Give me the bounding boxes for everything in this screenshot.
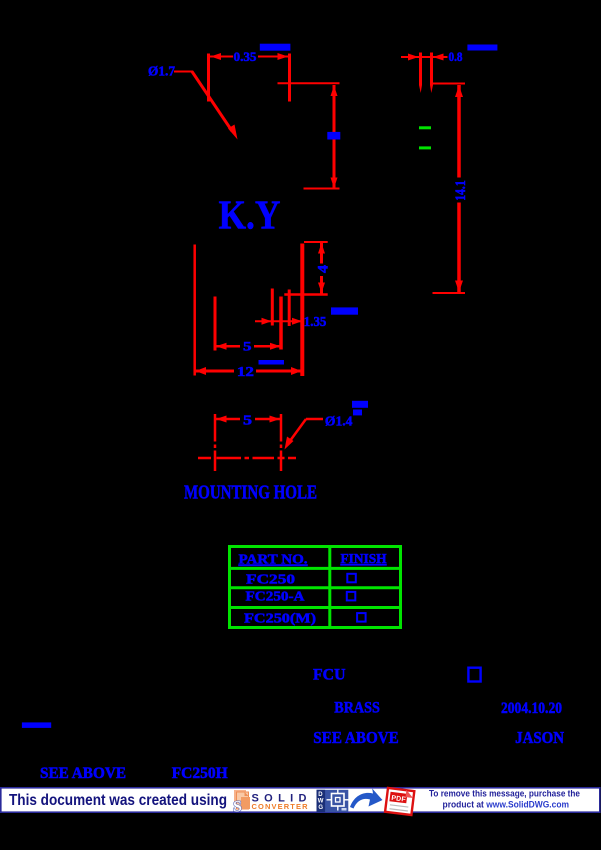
table row divider 3 [228, 606, 402, 609]
dimension line 0.35 right part with arrow [258, 56, 289, 58]
svg-text:To remove this message, purcha: To remove this message, purchase the [429, 789, 580, 800]
blue note blob [467, 45, 497, 51]
svg-text:SEE ABOVE: SEE ABOVE [40, 765, 126, 782]
top shelf line [278, 82, 340, 84]
svg-text:FC250: FC250 [246, 573, 295, 588]
svg-text:FINISH: FINISH [341, 552, 387, 567]
svg-text:G: G [318, 805, 323, 811]
hole leader horizontal [306, 418, 323, 421]
shelf line top [432, 83, 466, 85]
banner panel [1, 788, 600, 812]
blue note blob [259, 360, 285, 365]
tolerance blob lower [353, 410, 362, 416]
vertical dimension line 8 [333, 85, 336, 189]
table row divider 2 [228, 586, 402, 589]
svg-text:0.35: 0.35 [234, 49, 258, 64]
body line left [214, 297, 217, 351]
cell box row1 [347, 574, 356, 583]
pin B [279, 297, 283, 350]
green mark 1 [419, 126, 431, 129]
extension line right [288, 54, 291, 102]
blue note blob [260, 44, 291, 51]
convert arrow [350, 789, 383, 809]
svg-text:FCU: FCU [313, 667, 346, 684]
svg-text:W: W [318, 798, 324, 804]
dim line 12 [195, 370, 234, 373]
green mark 2 [419, 146, 431, 149]
solidconverter icon pages [234, 790, 250, 809]
svg-text:JASON: JASON [515, 728, 565, 747]
pin C [288, 290, 291, 327]
svg-text:4: 4 [316, 264, 332, 273]
svg-text:MOUNTING HOLE: MOUNTING HOLE [184, 482, 317, 503]
cell box row2 [347, 592, 356, 601]
svg-text:This document was created usin: This document was created using [9, 792, 227, 809]
svg-text:S: S [233, 799, 242, 816]
dim line 5 [215, 418, 240, 421]
pdf icon [385, 787, 414, 815]
dimension line 0.35 left part with arrow [210, 56, 233, 58]
leader diagonal with arrowhead [192, 72, 232, 132]
dim line 5 [215, 345, 240, 348]
svg-text:FC250-A: FC250-A [246, 590, 306, 605]
centerline right vertical [280, 414, 283, 442]
extension line left [207, 54, 210, 102]
svg-text:Ø1.4: Ø1.4 [325, 415, 353, 430]
hole leader diagonal [287, 419, 306, 445]
svg-text:Ø1.7: Ø1.7 [148, 65, 175, 80]
tolerance blob upper [352, 401, 368, 408]
table outer border [230, 547, 401, 628]
pin line left [419, 53, 422, 86]
extension line far left [193, 245, 196, 376]
small note blob [22, 722, 51, 728]
centerline left vertical [214, 414, 217, 442]
svg-text:5: 5 [243, 413, 252, 428]
vertical dimension line 4 [320, 243, 323, 264]
dim text 8 blob [327, 132, 340, 140]
svg-text:2004.10.20: 2004.10.20 [501, 700, 562, 717]
svg-text:product at www.SolidDWG.com: product at www.SolidDWG.com [443, 800, 570, 811]
svg-text:K.Y: K.Y [219, 192, 281, 238]
svg-text:5: 5 [243, 339, 252, 354]
svg-text:FC250H: FC250H [172, 765, 228, 782]
svg-text:0.8: 0.8 [449, 49, 463, 64]
table column divider [328, 546, 331, 628]
pin line right [430, 53, 433, 86]
cell box row3 [357, 613, 366, 622]
vertical dimension line 14.1 [457, 85, 461, 178]
dwg icon [317, 790, 350, 812]
centerline horizontal dash-dot [198, 457, 211, 460]
pin A [271, 289, 274, 326]
svg-text:BRASS: BRASS [334, 700, 380, 717]
svg-text:SEE ABOVE: SEE ABOVE [313, 728, 399, 747]
blue note blob [331, 307, 358, 314]
leader horizontal segment [174, 71, 193, 73]
body line right [300, 244, 304, 377]
svg-text:CONVERTER: CONVERTER [252, 802, 309, 811]
svg-text:D: D [318, 792, 323, 798]
svg-text:PART NO.: PART NO. [239, 553, 308, 568]
dim line 0.8 [401, 56, 448, 58]
bottom shelf line [304, 188, 340, 190]
dim line 1.35 [255, 320, 304, 322]
mid shelf line [284, 293, 327, 296]
empty box glyph [468, 668, 480, 682]
top extension line [304, 241, 328, 243]
table row divider 1 [228, 567, 402, 570]
svg-text:1.35: 1.35 [304, 314, 327, 329]
svg-text:12: 12 [237, 364, 254, 379]
shelf line bottom [433, 292, 466, 294]
svg-text:14.1: 14.1 [453, 180, 469, 201]
svg-text:FC250(M): FC250(M) [244, 612, 316, 627]
